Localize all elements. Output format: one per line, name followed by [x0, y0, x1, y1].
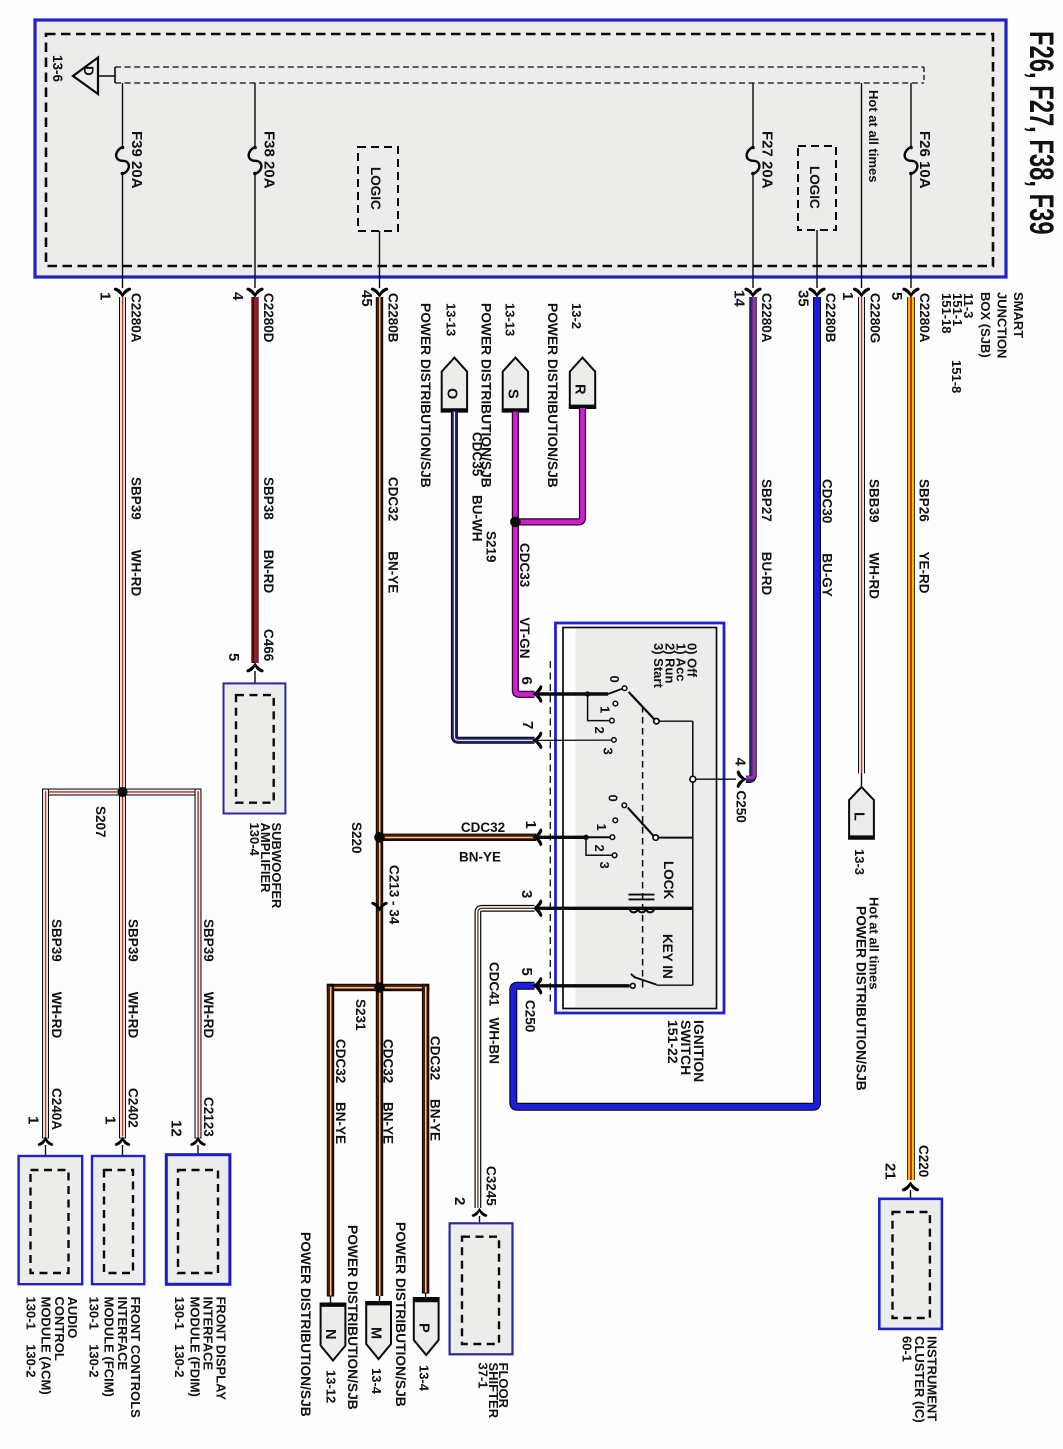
- pin 7 arrow: [532, 732, 542, 749]
- svg-text:JUNCTION: JUNCTION: [995, 292, 1010, 358]
- svg-text:13-2: 13-2: [569, 303, 584, 329]
- dashed mechanical link line: [642, 706, 644, 991]
- svg-text:F26 10A: F26 10A: [916, 131, 933, 189]
- connector D triangle 13-6: [73, 58, 115, 95]
- switch 1 arm: [629, 692, 654, 719]
- svg-text:1: 1: [598, 706, 613, 713]
- svg-text:C2280D: C2280D: [261, 293, 276, 343]
- svg-text:S220: S220: [349, 822, 364, 854]
- fuse F38: [249, 83, 262, 266]
- svg-text:151-18: 151-18: [939, 293, 954, 333]
- svg-text:0: 0: [607, 676, 622, 683]
- wire CDC35 BU-WH to ignition pin 7: [454, 412, 534, 741]
- svg-text:3: 3: [597, 862, 612, 869]
- switch 1 pivot: [654, 719, 659, 724]
- switch 1 common wire pin 6: [537, 692, 608, 695]
- svg-text:POWER DISTRIBUTION/SJB: POWER DISTRIBUTION/SJB: [418, 303, 433, 488]
- svg-text:13-4: 13-4: [369, 1368, 384, 1395]
- svg-text:BN-YE: BN-YE: [459, 850, 501, 865]
- svg-text:5: 5: [225, 653, 242, 661]
- connector C3245 pin 2: [451, 1166, 499, 1238]
- svg-text:S207: S207: [93, 806, 108, 838]
- svg-text:151-22: 151-22: [665, 1020, 681, 1064]
- svg-text:SBP39 WH-RD: SBP39 WH-RD: [126, 919, 141, 1039]
- labels SUBWOOFER AMPLIFIER 130-4: [247, 823, 284, 910]
- svg-text:C466: C466: [261, 629, 276, 662]
- svg-text:CDC32 BN-YE: CDC32 BN-YE: [381, 1039, 396, 1144]
- stub from SBB39 wire: [861, 774, 863, 789]
- svg-text:CDC32 BN-YE: CDC32 BN-YE: [333, 1039, 348, 1144]
- svg-text:C2280B: C2280B: [823, 293, 838, 343]
- svg-text:R: R: [572, 384, 588, 395]
- connector M: [365, 1296, 391, 1359]
- svg-text:1: 1: [522, 821, 539, 829]
- svg-text:6: 6: [518, 677, 535, 685]
- wire CDC41 WH-BN: [478, 908, 535, 1208]
- audio control module box: [19, 1156, 83, 1284]
- switch 1 contacts: [610, 686, 627, 742]
- svg-text:BOX (SJB): BOX (SJB): [978, 292, 993, 358]
- svg-text:C2280B: C2280B: [386, 293, 401, 343]
- subwoofer amplifier box: [224, 683, 286, 813]
- svg-text:SBP39 WH-RD: SBP39 WH-RD: [201, 919, 216, 1039]
- wire CDC30 BU-GY routed to ignition pin 5: [513, 297, 834, 1107]
- svg-text:CDC32 BN-YE: CDC32 BN-YE: [428, 1036, 443, 1141]
- svg-text:C250: C250: [523, 1000, 538, 1032]
- switch 1 junction: [585, 691, 590, 696]
- labels ACM: [24, 1297, 81, 1395]
- wire left branch SBP39: [42, 789, 64, 1139]
- switch 2 output line: [658, 837, 692, 839]
- fuse F39: [116, 83, 129, 266]
- svg-text:CDC30 BU-GY: CDC30 BU-GY: [820, 479, 835, 597]
- svg-text:SBP26 YE-RD: SBP26 YE-RD: [917, 479, 932, 594]
- switch 1 position digits: [592, 676, 622, 755]
- svg-text:5: 5: [888, 292, 905, 300]
- svg-text:F38 20A: F38 20A: [261, 131, 278, 189]
- pin 1 arrow: [532, 829, 542, 846]
- svg-text:13-6: 13-6: [50, 55, 65, 83]
- svg-text:C2402: C2402: [126, 1088, 141, 1128]
- svg-text:14: 14: [731, 290, 748, 307]
- pin 6 arrow: [532, 685, 542, 702]
- KEY IN output line: [657, 984, 693, 986]
- svg-text:POWER DISTRIBUTION/SJB: POWER DISTRIBUTION/SJB: [393, 1222, 408, 1407]
- wire right branch SBP39: [195, 789, 217, 1139]
- svg-text:D: D: [81, 66, 96, 76]
- svg-text:13-12: 13-12: [324, 1370, 339, 1403]
- svg-text:60-1: 60-1: [900, 1336, 915, 1362]
- svg-text:45: 45: [358, 290, 375, 307]
- inline connector C213-34: [371, 865, 401, 925]
- svg-text:C2280A: C2280A: [917, 293, 932, 343]
- KEY IN switch wire pin 5: [537, 984, 630, 987]
- svg-text:F39 20A: F39 20A: [128, 131, 145, 189]
- wire from R to S219: [515, 408, 582, 522]
- svg-text:130-1 130-2: 130-1 130-2: [87, 1297, 102, 1378]
- svg-text:2: 2: [592, 727, 607, 734]
- svg-text:151-8: 151-8: [949, 360, 964, 393]
- LOCK coil arcs: [630, 908, 655, 912]
- splice S220: [374, 832, 385, 843]
- LOCK coil core lines: [629, 894, 655, 896]
- switch 2 position digits: [592, 795, 621, 869]
- connector P: [413, 1294, 439, 1356]
- svg-text:3) Start: 3) Start: [651, 643, 666, 688]
- svg-text:1: 1: [25, 1116, 42, 1124]
- smart junction box SJB outline: [35, 20, 1006, 277]
- svg-text:1: 1: [839, 292, 856, 300]
- svg-text:13-13: 13-13: [503, 303, 518, 336]
- svg-text:C240A: C240A: [49, 1088, 64, 1130]
- pin 3 arrow: [532, 900, 542, 917]
- svg-text:12: 12: [168, 1120, 185, 1137]
- svg-text:N: N: [322, 1329, 338, 1339]
- svg-text:2: 2: [592, 845, 607, 852]
- svg-text:130-4: 130-4: [247, 823, 262, 857]
- switch 1 output line: [659, 720, 693, 722]
- C2280A pin 1 exit: [97, 266, 144, 343]
- svg-text:4: 4: [229, 292, 246, 301]
- svg-text:13-3: 13-3: [852, 849, 867, 875]
- wire SBP38 BN-RD: [251, 297, 276, 663]
- svg-text:F27 20A: F27 20A: [759, 131, 776, 189]
- svg-text:2: 2: [451, 1197, 468, 1205]
- svg-text:1: 1: [594, 824, 609, 831]
- svg-text:C220: C220: [916, 1145, 931, 1177]
- connector N: [320, 1297, 346, 1361]
- switch 1 stub to contact 0: [608, 689, 622, 694]
- svg-text:37-1: 37-1: [476, 1363, 491, 1389]
- pin 4 arrow: [737, 771, 747, 788]
- svg-text:7: 7: [519, 721, 536, 729]
- svg-text:CDC33 VT-GN: CDC33 VT-GN: [517, 543, 532, 659]
- instrument cluster box: [879, 1199, 942, 1329]
- switch 2 arm: [628, 808, 654, 836]
- svg-text:21: 21: [882, 1163, 899, 1180]
- svg-text:CDC32 BN-YE: CDC32 BN-YE: [386, 477, 401, 593]
- svg-text:LOGIC: LOGIC: [368, 167, 383, 210]
- svg-text:MODULE (FDIM): MODULE (FDIM): [187, 1297, 202, 1397]
- connector R: [569, 358, 596, 408]
- svg-text:S219: S219: [484, 531, 499, 563]
- wire horizontal CDC32 branch to ignition pin 1: [382, 834, 536, 841]
- svg-text:C250: C250: [734, 791, 749, 823]
- svg-text:POWER DISTRIBUTION/SJB: POWER DISTRIBUTION/SJB: [479, 303, 494, 488]
- svg-text:C2123: C2123: [201, 1097, 216, 1137]
- labels 0) Off 1) Acc 2) Run 3) Start: [651, 643, 699, 688]
- front controls interface module box: [92, 1156, 144, 1284]
- svg-text:CDC41 WH-BN: CDC41 WH-BN: [487, 962, 502, 1064]
- C2280B pin 35 exit: [795, 266, 839, 343]
- wire right branch CDC32 to P: [422, 984, 443, 1294]
- LOGIC box 1: [358, 147, 398, 266]
- C2280D pin 4 exit: [229, 266, 276, 343]
- svg-text:POWER DISTRIBUTION/SJB: POWER DISTRIBUTION/SJB: [345, 1225, 360, 1410]
- svg-text:C2280G: C2280G: [868, 293, 883, 343]
- wire CDC32 BN-YE main run: [376, 297, 401, 1296]
- labels FLOOR SHIFTER 37-1: [476, 1363, 512, 1419]
- svg-text:MODULE (ACM): MODULE (ACM): [39, 1297, 54, 1395]
- svg-text:S231: S231: [353, 999, 368, 1031]
- pin 5 arrow: [532, 977, 542, 994]
- connector C466 pin 5: [225, 629, 276, 696]
- wire SBP26 YE-RD: [907, 297, 931, 1180]
- KEY IN contact: [630, 983, 635, 988]
- svg-text:SBP39 WH-RD: SBP39 WH-RD: [49, 919, 64, 1039]
- svg-text:13-13: 13-13: [444, 303, 459, 336]
- connector C220 pin 21: [882, 1145, 932, 1213]
- splice S207: [117, 787, 127, 797]
- floor shifter box: [450, 1223, 513, 1354]
- svg-text:130-1 130-2: 130-1 130-2: [172, 1297, 187, 1378]
- svg-text:C2280A: C2280A: [129, 293, 144, 343]
- connector C240A pin 1: [25, 1088, 65, 1171]
- svg-text:1: 1: [97, 292, 114, 300]
- switch 1 wire pin 7 to contact 3: [537, 739, 611, 741]
- svg-text:SBP38 BN-RD: SBP38 BN-RD: [261, 477, 276, 594]
- splice S231: [374, 982, 385, 993]
- svg-text:MODULE (FCIM): MODULE (FCIM): [102, 1297, 117, 1397]
- svg-text:P: P: [416, 1323, 432, 1333]
- switch 2 pivot: [653, 835, 658, 840]
- hot at all times wire: [861, 83, 863, 266]
- svg-text:4: 4: [732, 758, 749, 767]
- svg-text:1: 1: [102, 1116, 119, 1124]
- svg-text:M: M: [368, 1327, 384, 1339]
- svg-text:LOGIC: LOGIC: [807, 166, 822, 209]
- svg-text:SBP27 BU-RD: SBP27 BU-RD: [759, 479, 774, 596]
- internal bus line: [692, 721, 694, 985]
- switch 2 contacts: [610, 803, 626, 858]
- svg-text:3: 3: [601, 748, 616, 755]
- svg-text:C213 - 34: C213 - 34: [387, 865, 402, 925]
- switch 2 junction: [583, 835, 588, 840]
- svg-text:POWER DISTRIBUTION/SJB: POWER DISTRIBUTION/SJB: [298, 1232, 313, 1417]
- internal dashed bus: [115, 67, 924, 83]
- svg-text:SBB39 WH-RD: SBB39 WH-RD: [867, 479, 882, 599]
- svg-text:0: 0: [606, 795, 621, 802]
- connector C2123 pin 12: [168, 1097, 217, 1171]
- splice S219: [510, 517, 521, 528]
- svg-text:CDC32: CDC32: [461, 820, 505, 835]
- wire SBP27 BU-RD routed to ignition pin 4: [746, 297, 774, 779]
- svg-text:35: 35: [795, 290, 812, 307]
- connector O: [441, 358, 468, 412]
- svg-text:S: S: [505, 389, 521, 399]
- svg-text:3: 3: [518, 890, 535, 898]
- C2280A pin 14 exit: [731, 266, 775, 343]
- switch 2 common wire pin 1: [537, 836, 586, 839]
- svg-text:KEY IN: KEY IN: [660, 934, 675, 979]
- svg-text:POWER DISTRIBUTION/SJB: POWER DISTRIBUTION/SJB: [545, 303, 560, 488]
- svg-text:C2280A: C2280A: [759, 293, 774, 343]
- labels FDIM: [172, 1297, 229, 1401]
- C2280A pin 5 exit: [888, 266, 932, 343]
- svg-text:C3245: C3245: [484, 1166, 499, 1206]
- LOGIC box 2: [798, 146, 836, 266]
- labels IGNITION SWITCH 151-22: [665, 1020, 707, 1082]
- C2280G pin 1 exit: [839, 266, 883, 343]
- KEY IN blade: [635, 977, 657, 984]
- svg-text:POWER DISTRIBUTION/SJB: POWER DISTRIBUTION/SJB: [854, 906, 869, 1091]
- svg-text:13-4: 13-4: [417, 1365, 432, 1392]
- wire SBB39 WH-RD: [858, 297, 882, 774]
- svg-text:SBP39 WH-RD: SBP39 WH-RD: [129, 477, 144, 597]
- svg-text:Hot at all times: Hot at all times: [866, 90, 881, 182]
- dashed connector line C250: [549, 661, 551, 1006]
- fuse F26: [905, 83, 918, 266]
- svg-text:130-1 130-2: 130-1 130-2: [24, 1297, 39, 1378]
- svg-text:F26, F27, F38, F39: F26, F27, F38, F39: [1022, 31, 1060, 235]
- junction to pin 4: [690, 776, 696, 782]
- svg-text:O: O: [444, 388, 460, 399]
- svg-text:LOCK: LOCK: [661, 861, 676, 899]
- switch 1 bracket to contact 2: [588, 694, 610, 721]
- wire SBP39 WH-RD: [119, 297, 144, 792]
- labels FCIM: [87, 1297, 144, 1419]
- fuse F27: [747, 83, 760, 266]
- svg-text:5: 5: [518, 968, 535, 976]
- connector C2402 pin 1: [102, 1088, 141, 1171]
- wire from S through S219 to ignition pin 6 (CDC33 VT-GN): [515, 412, 534, 695]
- wire horizontal SBP39 at S207: [42, 789, 202, 796]
- LOCK coil wire pin 3: [537, 907, 693, 910]
- svg-text:L: L: [851, 812, 867, 821]
- labels INSTRUMENT CLUSTER (IC) 60-1: [900, 1336, 940, 1423]
- front display interface module box: [166, 1155, 230, 1285]
- switch 2 bracket to contact 3: [586, 837, 612, 855]
- wire left branch CDC32 to N: [327, 984, 348, 1297]
- connector L: [848, 787, 875, 839]
- C2280B pin 45 exit: [358, 266, 401, 343]
- svg-text:SMART: SMART: [1011, 292, 1026, 338]
- wire horizontal at S231: [327, 984, 430, 991]
- connector S: [502, 358, 529, 412]
- wire middle branch SBP39: [119, 796, 141, 1139]
- SJB name block: [939, 292, 1026, 393]
